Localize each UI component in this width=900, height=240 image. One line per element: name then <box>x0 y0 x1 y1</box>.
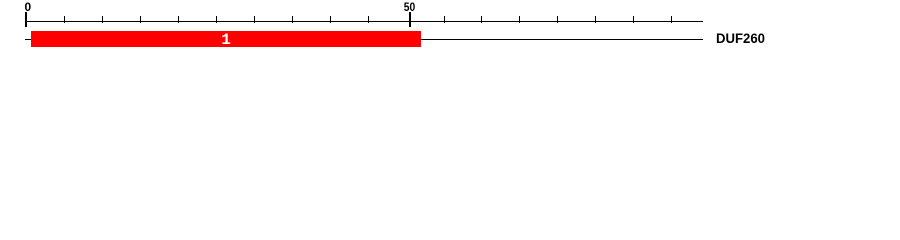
svg-text:0: 0 <box>25 0 32 14</box>
svg-text:50: 50 <box>404 0 416 14</box>
svg-text:DUF260: DUF260 <box>716 30 765 46</box>
svg-text:1: 1 <box>221 31 231 49</box>
